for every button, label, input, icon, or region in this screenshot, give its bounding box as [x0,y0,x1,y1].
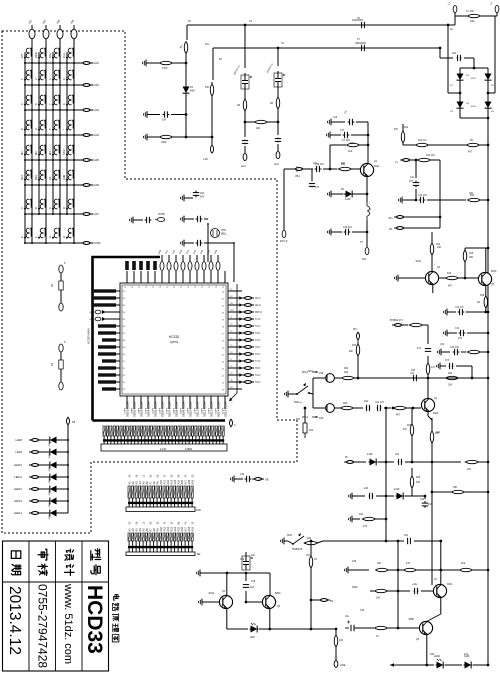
svg-text:10R: 10R [470,20,475,23]
node node U1 right RST [242,311,254,314]
wire row228 [406,227,440,229]
junction J124 [310,540,313,543]
capacitor C42 [275,138,281,143]
wire U1 top pin 4 [147,271,149,283]
svg-text:R29: R29 [416,477,421,479]
node P ring out [211,145,214,153]
U1 left pin label 15 [102,387,116,390]
resistor R11 [416,143,429,146]
junction J68 [185,62,188,65]
transistor Q1 [360,163,373,176]
wire q3 emitter [485,286,487,296]
key switch SW15 (#) [48,120,60,131]
junction J97 [367,144,370,147]
wire q1 emitter [366,176,368,195]
U1 left pin label 11 [102,359,116,362]
svg-text:AC2: AC2 [274,163,279,166]
svg-text:TEL: TEL [362,258,367,261]
U1 left pin label 13 [98,373,116,376]
svg-text:T6-O: T6-O [255,354,260,356]
node chain A bottom connector [59,303,63,311]
wire U1 top pin 14 [217,271,219,283]
resistor R32 [304,541,319,544]
capacitor C15 [453,349,460,355]
capacitor C25 [369,493,374,499]
svg-text:104: 104 [404,534,409,537]
wire U1 top pin 5 [154,271,156,283]
svg-text:274F8: 274F8 [195,407,197,414]
key switch SW14 (0) [34,120,46,131]
wire x398 drop [397,541,399,628]
svg-text:R11 472: R11 472 [418,140,427,142]
svg-text:4007: 4007 [190,90,196,93]
wire row665 c [473,664,488,666]
junction J25 [24,134,26,136]
wire left bridge rail [447,25,449,93]
svg-text:100K: 100K [161,141,167,144]
capacitor C19 [344,229,351,235]
junction J70 [185,136,188,139]
wire LED13 a [41,500,48,502]
node node U1 right CE [242,304,254,307]
wire LED11 a [41,476,48,478]
capacitor C17 [343,132,350,138]
svg-text:T4-O: T4-O [255,340,260,342]
wire row462 d [478,461,488,463]
wire L2 horiz b [455,15,461,17]
junction J13 [31,84,33,86]
inductor L1 [367,202,370,220]
diode D16 [48,498,59,505]
key switch SW4 (FLA) [62,48,74,59]
connector CN2 base [126,507,195,512]
wire keypad row 7 [25,213,82,215]
label arrow mic1 [312,371,318,373]
wire row665 b [445,664,462,666]
svg-text:10K: 10K [376,597,381,600]
wire R8 right [270,121,278,123]
capacitor C20b [425,349,431,352]
node node U1 right X2 [242,297,254,300]
junction J52 [66,213,68,215]
ground ground G15 [328,229,335,236]
junction J105 [412,407,415,410]
junction J23 [59,109,61,111]
wire keypad rail x=39 [38,52,40,214]
pin arrow U1 right 10 [239,352,242,355]
junction J48 [73,184,75,186]
junction J87 [487,199,490,202]
junction J92 [487,311,490,314]
svg-text:C12 104: C12 104 [418,195,427,197]
svg-text:4148: 4148 [49,441,51,447]
ground ground G6 [181,216,188,223]
svg-text:22K: 22K [349,350,354,353]
svg-text:1M: 1M [237,104,240,107]
junction J94 [487,351,490,354]
node keypad column K1 [29,25,35,46]
diode D12 [48,449,59,456]
key switch SW31 (G) [48,228,60,239]
junction J107 [411,461,414,464]
svg-text:104: 104 [428,503,433,506]
key switch SW32 (H) [62,228,74,239]
node node LED9 input [29,451,41,454]
svg-text:SP+: SP+ [388,217,393,220]
svg-text:4148: 4148 [345,198,351,201]
wire q8 emitter [426,635,428,665]
junction J111 [385,461,388,464]
resistor R36 [404,568,417,571]
wire q1 collector [367,122,369,164]
junction J57 [31,242,33,244]
junction J122 [310,628,313,631]
svg-text:A12: A12 [166,526,170,531]
wire cap down2 [415,189,417,200]
resistor R12 [401,130,404,144]
wire q7 collector [440,541,442,584]
junction J8 [73,62,75,64]
node handset pin [282,230,286,237]
ground ground G13 [327,132,334,139]
node node RI [344,461,356,464]
node U1 top pin connector 12 [202,255,206,270]
wire U1 top pin 8 [175,271,177,283]
junction J43 [52,184,54,186]
resistor R4 [158,135,175,138]
svg-text:4007: 4007 [471,106,477,108]
svg-text:M2: M2 [34,151,38,155]
connector CN3 pin labels row2 [128,521,194,524]
capacitor C28 [243,585,249,588]
svg-text:KA06: KA06 [93,183,100,187]
resistor R14 [430,243,433,255]
svg-text:A5: A5 [141,528,145,532]
wire c29 top stub [245,552,247,556]
junction J21 [31,109,33,111]
key switch SW23 (HF) [48,170,60,181]
LED D9 [250,623,259,633]
node node base conn [293,168,305,171]
wire chain2 mid [277,89,279,96]
junction J71 [211,136,214,139]
svg-text:C17: C17 [340,130,345,132]
junction J93 [487,332,490,335]
wire sw2 a [288,541,293,544]
key switch SW26 (B) [34,199,46,210]
key switch SW21 (RCL) [20,170,32,181]
svg-text:D: D [62,207,66,209]
resistor R18 [484,296,487,308]
connector CN2 stem band [128,502,193,504]
wire U1 right pin bus [236,284,238,393]
wire row541 b [414,540,441,542]
capacitor C22 [366,405,371,411]
wire row519 b [375,518,386,520]
title text xing hao [91,549,101,575]
wire q4 emitter [427,412,429,416]
svg-text:4148: 4148 [394,488,400,491]
capacitor C8 (electrolytic) [241,73,252,91]
wire q2 col b [431,255,433,271]
svg-text:R28: R28 [407,425,412,427]
key switch SW18 (M2) [34,145,46,156]
resistor R45 [426,363,429,375]
node node REC [400,159,412,162]
junction J6 [45,62,47,64]
junction J39 [59,159,61,161]
junction J42 [38,184,40,186]
diode D4 [485,73,492,82]
resistor R29 [410,476,413,488]
ground ground G22 [281,538,288,545]
capacitor C1 [163,111,170,117]
ground ground G17 [285,391,292,398]
wire row312b [486,311,488,313]
junction J44 [66,184,68,186]
wire row352 [480,351,488,353]
node AC input N [495,5,499,12]
svg-text:R25: R25 [343,403,348,405]
wire q2 base [402,277,425,279]
junction J95 [367,134,370,137]
capacitor C35 [414,588,419,594]
junction J51 [52,213,54,215]
junction J91 [484,311,487,314]
wire hook b [309,393,313,394]
junction J54 [45,213,47,215]
wire bd6 [487,109,489,118]
wire base d [351,168,362,170]
connector CN2 pin labels row2 [128,474,194,477]
junction J53 [31,213,33,215]
wire row496 c [405,495,425,497]
wire row496 b [376,495,394,497]
ground ground G14 [328,191,335,198]
junction J108 [431,491,434,494]
svg-text:4K7: 4K7 [448,285,453,288]
svg-text:X2-O: X2-O [255,298,261,300]
svg-text:284F8: 284F8 [202,407,204,414]
wire U1 left pin 4 [104,311,120,313]
node P chain2 [276,151,280,158]
node U1 GND symbol 3 [95,310,106,314]
node node SPK- [394,227,406,230]
wire W1 [238,478,243,480]
wire LED8 a [41,439,48,441]
svg-text:LED8: LED8 [16,438,23,442]
junction J61 [24,242,26,244]
junction J55 [59,213,61,215]
key switch SW19 (M3) [48,145,60,156]
ground ground G23 [197,570,204,577]
wire row145 [403,144,488,146]
wire rail 440 [439,160,441,228]
svg-text:472: 472 [458,337,463,340]
node keypad row output KA01 [81,62,93,65]
node U1 top pin connector 9 [181,255,185,270]
junction J88 [439,216,442,219]
node node BYP [392,324,404,327]
junction J62 [67,439,69,441]
junction J14 [45,84,47,86]
ground ground G7 [181,240,188,247]
wire q4 collector riser c [427,375,429,398]
wire row462 a [356,461,366,463]
wire W7 [173,136,212,138]
svg-text:16R: 16R [196,508,201,512]
resistor R34 [334,635,337,647]
junction J116 [424,495,427,498]
junction J1 [24,62,26,64]
svg-text:223: 223 [364,487,369,490]
resistor R38 [460,568,473,571]
svg-text:47K: 47K [394,128,399,131]
svg-text:T3-O: T3-O [255,333,260,335]
svg-text:A11: A11 [162,480,166,485]
wire U1 bottom pin 10 [189,396,191,409]
wire U1 right bus tail [229,393,237,401]
resistor R22 [409,323,424,326]
svg-text:VB: VB [265,478,269,482]
key switch SW17 (M1) [20,145,32,156]
junction J26 [38,134,40,136]
wire q2-q3 b [458,277,478,279]
wire hook split [312,378,314,408]
capacitor C33 (polarized) [345,621,354,632]
wire bd5 [487,81,489,101]
node U1 top pin connector 11 [195,255,199,270]
wire row519 a [356,518,360,520]
svg-text:C28: C28 [251,581,256,583]
svg-text:104: 104 [250,586,255,589]
wire U1 left pin 1 [104,290,120,292]
wire LED11 b [58,476,68,478]
wire row570 a [352,569,369,571]
wire row200b [480,199,488,201]
svg-text:33K: 33K [453,486,458,489]
wire LED8 b [58,439,68,441]
wire row366 [456,365,472,367]
svg-text:T7-O: T7-O [255,361,260,363]
junction J131 [397,590,400,593]
svg-text:AC1: AC1 [241,165,246,168]
junction J118 [226,572,229,575]
svg-text:A13: A13 [169,479,173,484]
svg-text:LED2: LED2 [434,655,441,658]
junction J115 [487,491,490,494]
wire c28 b [245,591,247,602]
svg-text:KA07: KA07 [93,212,100,216]
node node diode column feed [67,417,70,429]
wire W6 [151,136,159,138]
U1 left pin label 9 [98,345,116,348]
resistor R10 [468,198,481,201]
wire q5 collector [226,573,228,595]
ground ground G2 [144,111,151,118]
svg-text:R12: R12 [404,127,409,129]
svg-text:10K: 10K [448,384,453,387]
transistor Q8 [419,621,432,634]
svg-text:MU: MU [353,328,357,331]
svg-text:A14: A14 [173,479,177,484]
wire row312 [466,311,486,313]
svg-text:C21: C21 [410,373,415,375]
resistor R13 [417,158,432,161]
junction J120 [245,601,248,604]
svg-text:P/T: P/T [20,53,24,58]
svg-text:HCD33-MAIN: HCD33-MAIN [87,328,91,344]
wire row628 b [387,627,419,629]
svg-text:LCD: LCD [160,447,167,451]
wire U1 left pin 9 [104,346,120,348]
resistor R40 [446,376,459,379]
junction J45 [31,184,33,186]
node node SPK+ [394,216,406,219]
svg-text:KA04: KA04 [93,133,100,137]
node U1 GND symbol 4 [95,317,106,321]
ground ground G9 [395,275,402,282]
junction J18 [38,109,40,111]
wire mic2 d [406,407,421,409]
wire row629 a [227,628,248,630]
svg-text:10K: 10K [256,127,261,130]
capacitor C41 [242,140,248,145]
junction J104 [392,407,395,410]
ground ground G25 [345,567,352,574]
diode D15 [48,486,59,493]
wire chain A 2 [60,290,62,303]
svg-text:174F8: 174F8 [125,407,127,414]
svg-text:B: B [34,207,38,209]
junction J20 [66,109,68,111]
junction J30 [45,134,47,136]
svg-text:KCOM: KCOM [93,241,101,245]
connector LCD1 stem band [103,439,224,441]
junction J37 [31,159,33,161]
junction J49 [24,213,26,215]
svg-text:1M: 1M [270,102,273,105]
junction J109 [385,407,388,410]
svg-text:A3: A3 [134,481,138,485]
wire U1 right pin 15 [228,388,242,390]
node node U1 right T4 [242,339,254,342]
svg-text:KA03: KA03 [93,108,100,112]
junction J67 [67,500,69,502]
diode D6 [344,191,355,198]
svg-text:R14: R14 [436,244,441,246]
junction J134 [487,664,490,667]
node node U1 right T6 [242,353,254,356]
resistor R44 [375,626,388,629]
svg-text:10K: 10K [377,562,382,565]
wire keypad row 1 [25,62,82,64]
wire x412 d [411,468,413,476]
wire U1 bottom pin 9 [182,396,184,409]
svg-text:SW500-B: SW500-B [292,548,303,551]
wire U1 top pin 11 [196,271,198,283]
svg-text:47K: 47K [406,562,411,565]
capacitor C40 [245,476,252,482]
wire W22 [404,324,408,326]
node node comb1 right pin [230,419,233,427]
svg-text:VOL: VOL [306,555,311,557]
connector LCD1 pins [103,426,224,444]
svg-text:214F8: 214F8 [153,407,155,414]
node node MUTE [357,332,360,342]
buzzer B1 [211,229,220,238]
svg-text:1N: 1N [466,103,469,105]
